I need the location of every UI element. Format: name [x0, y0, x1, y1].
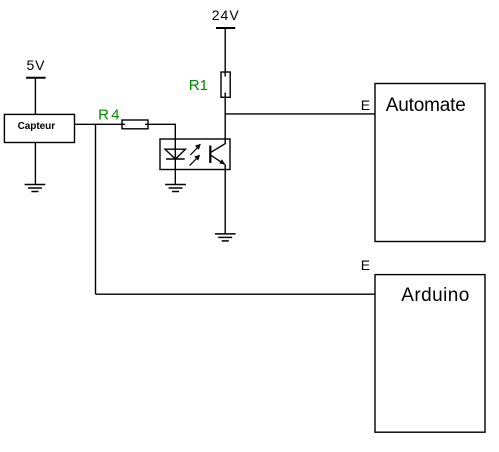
light arrow 1: [190, 145, 200, 155]
wire 24V to R1: [224, 28, 226, 77]
svg-text:R4: R4: [98, 106, 120, 123]
optocoupler U1 box: [160, 139, 230, 170]
svg-text:E: E: [361, 97, 370, 113]
LED diode of optocoupler: [165, 148, 186, 185]
svg-text:E: E: [361, 257, 370, 273]
svg-text:Capteur: Capteur: [18, 121, 56, 132]
phototransistor of optocoupler: [210, 144, 225, 165]
ground below phototransistor: [215, 234, 236, 241]
resistor R1: [221, 72, 230, 97]
svg-text:Arduino: Arduino: [401, 285, 469, 306]
resistor R4: [122, 120, 148, 129]
power 5V rail bar: [26, 77, 45, 79]
wire node to Automate E: [225, 113, 375, 115]
wire Capteur to R4: [75, 123, 126, 125]
wire emitter to ground: [224, 165, 226, 234]
svg-text:5V: 5V: [27, 57, 46, 73]
node junction wire down: [95, 124, 97, 294]
ground below LED: [165, 185, 186, 192]
svg-text:24V: 24V: [212, 7, 240, 23]
block Arduino: [375, 275, 485, 433]
block Automate: [375, 84, 485, 242]
wire to Arduino E: [96, 293, 376, 295]
wire R4 to optocoupler: [145, 124, 175, 149]
svg-text:R1: R1: [189, 77, 208, 94]
ground below Capteur: [25, 185, 46, 192]
wire Capteur to ground: [34, 143, 36, 185]
block Capteur: [4, 114, 74, 142]
svg-text:Automate: Automate: [386, 95, 466, 116]
light arrow 2: [190, 156, 200, 166]
wire R1 to collector: [224, 93, 226, 145]
power 24V rail bar: [216, 27, 235, 29]
wire 5V to Capteur: [34, 78, 36, 115]
